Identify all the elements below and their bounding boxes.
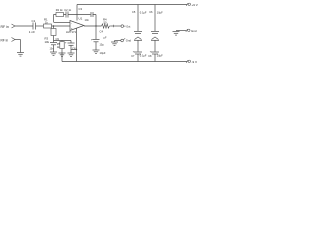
svg-text:C8: C8	[148, 55, 152, 58]
svg-text:+: +	[91, 37, 93, 41]
svg-text:10k: 10k	[45, 40, 50, 44]
wire output	[84, 25, 101, 27]
ground	[68, 53, 75, 57]
ground terminal right	[173, 29, 191, 35]
wire feedback top	[54, 14, 97, 16]
wire	[53, 36, 55, 43]
svg-text:10µF: 10µF	[100, 51, 106, 55]
svg-text:C6: C6	[149, 10, 153, 14]
svg-text:10µF: 10µF	[157, 11, 163, 15]
capacitor C6	[151, 5, 159, 34]
svg-text:C4: C4	[100, 29, 104, 33]
svg-text:LM7171: LM7171	[66, 30, 77, 34]
wire feedback left vertical	[53, 15, 55, 23]
svg-text:C3: C3	[79, 7, 83, 11]
capacitor C2	[66, 12, 68, 18]
terminal -9V	[186, 60, 190, 63]
capacitor C8b	[151, 52, 159, 62]
resistor R4	[101, 24, 111, 28]
capacitor C7	[50, 43, 57, 45]
svg-text:+9 V: +9 V	[192, 3, 198, 7]
terminal +9V	[186, 3, 190, 6]
svg-text:R2 1k: R2 1k	[56, 8, 63, 12]
capacitor C8	[68, 41, 75, 54]
power rail +V	[77, 4, 187, 6]
svg-text:µF: µF	[104, 36, 107, 39]
svg-text:+: +	[65, 40, 67, 44]
svg-text:10µF: 10µF	[157, 53, 163, 57]
wire	[53, 45, 55, 52]
wire bias tie	[54, 40, 72, 42]
svg-text:+: +	[133, 50, 135, 54]
capacitor C7b	[134, 52, 142, 62]
svg-text:Out: Out	[126, 25, 130, 28]
svg-text:C2 1n: C2 1n	[64, 8, 71, 12]
svg-text:RF in: RF in	[1, 25, 9, 29]
svg-text:+: +	[150, 50, 152, 54]
wire	[20, 40, 22, 53]
node C	[76, 49, 77, 50]
resistor R2	[56, 13, 64, 17]
terminal Out	[121, 25, 126, 28]
capacitor C5b	[134, 37, 142, 52]
svg-text:0.1µF: 0.1µF	[140, 53, 147, 57]
wire V- pin	[76, 28, 78, 62]
capacitor C5	[134, 5, 142, 34]
power rail -V	[62, 61, 187, 63]
node A	[53, 25, 54, 26]
svg-text:Gnd: Gnd	[191, 29, 197, 33]
wire inverting input stub	[54, 22, 70, 24]
ground terminal mid	[111, 38, 125, 45]
wire feedback right vertical	[95, 15, 97, 27]
svg-text:10µ: 10µ	[100, 43, 105, 46]
svg-text:0.1µF: 0.1µF	[140, 11, 147, 15]
svg-text:-: -	[71, 22, 72, 25]
wire	[111, 25, 122, 27]
wire tie	[71, 49, 77, 51]
svg-text:RF in: RF in	[1, 38, 9, 42]
node B	[95, 25, 96, 26]
wire V+ pin	[76, 5, 78, 21]
wire bias vertical	[53, 26, 55, 29]
svg-text:U1: U1	[79, 16, 83, 20]
input connector J2	[12, 38, 21, 42]
wire	[36, 25, 44, 27]
ground	[50, 52, 57, 56]
capacitor C1	[33, 23, 36, 30]
resistor R5	[60, 41, 64, 62]
wire	[52, 25, 71, 27]
junction tick	[113, 25, 115, 28]
ground	[93, 50, 100, 54]
op-amp U1	[70, 21, 84, 31]
svg-text:10n: 10n	[85, 18, 90, 22]
capacitor C4	[93, 26, 100, 50]
svg-text:1 nF: 1 nF	[29, 30, 35, 34]
svg-text:C7: C7	[131, 55, 135, 58]
svg-text:-9 V: -9 V	[192, 60, 198, 64]
svg-text:C8: C8	[72, 47, 76, 51]
svg-text:C1: C1	[32, 19, 36, 23]
input connector J1	[12, 24, 17, 28]
resistor R1	[44, 24, 52, 28]
svg-text:Gnd: Gnd	[126, 39, 132, 43]
ground	[59, 53, 66, 57]
capacitor C6b	[151, 37, 159, 52]
resistor R3	[51, 29, 56, 36]
wire	[17, 25, 34, 27]
capacitor C3	[91, 12, 93, 17]
svg-text:C5: C5	[132, 10, 136, 14]
ground	[17, 53, 24, 57]
